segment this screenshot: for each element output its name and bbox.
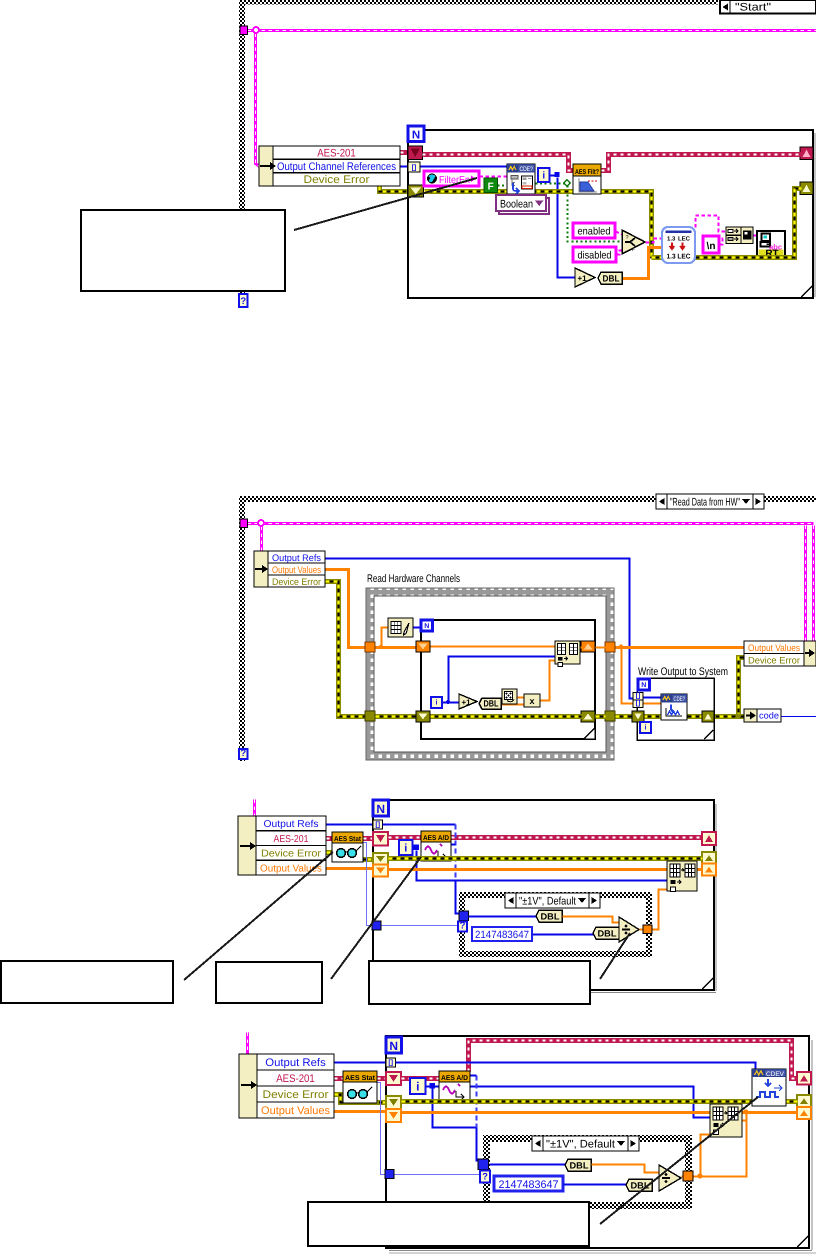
svg-text:2147483647: 2147483647 [499, 1179, 559, 1191]
svg-text:AES-201: AES-201 [317, 147, 356, 159]
svg-text:Write Output to System: Write Output to System [638, 666, 728, 678]
svg-text:disabled: disabled [578, 250, 612, 262]
svg-text:"±1V", Default: "±1V", Default [519, 895, 576, 907]
svg-text:F: F [488, 182, 494, 193]
svg-text:N: N [389, 1039, 398, 1053]
svg-text:AES-201: AES-201 [274, 834, 309, 845]
svg-text:?: ? [626, 235, 629, 241]
svg-text:Device Error: Device Error [261, 849, 322, 860]
svg-text:"±1V", Default: "±1V", Default [546, 1138, 615, 1150]
svg-text:CDE?: CDE? [674, 696, 686, 703]
svg-text:Device Error: Device Error [748, 656, 800, 667]
svg-text:i: i [404, 843, 407, 855]
svg-text:"Read Data from HW": "Read Data from HW" [670, 496, 740, 508]
svg-text:Read Hardware Channels: Read Hardware Channels [367, 573, 460, 585]
svg-text:?: ? [460, 921, 466, 932]
svg-text:CDEV: CDEV [766, 1071, 785, 1078]
svg-text:Output Values: Output Values [748, 643, 800, 654]
svg-text:Device Error: Device Error [263, 1089, 329, 1101]
svg-text:"Start": "Start" [735, 2, 771, 14]
svg-text:AES A/D: AES A/D [441, 1074, 468, 1082]
svg-text:N: N [412, 130, 420, 142]
svg-text:AES Stat: AES Stat [334, 836, 362, 843]
svg-text:DBL: DBL [598, 929, 618, 939]
svg-text:[]: [] [388, 1059, 393, 1067]
svg-text:\n: \n [707, 241, 716, 252]
svg-text:Output Refs: Output Refs [265, 1057, 326, 1069]
svg-text:+1: +1 [577, 274, 587, 283]
svg-text:enabled: enabled [578, 226, 611, 238]
svg-text:Output Refs: Output Refs [264, 819, 319, 830]
svg-text:N: N [424, 623, 429, 630]
svg-text:AES-201: AES-201 [276, 1073, 315, 1085]
svg-text:x: x [529, 696, 534, 706]
svg-text:[]: [] [636, 692, 641, 700]
svg-text:N: N [641, 682, 646, 689]
svg-text:Output Channel References: Output Channel References [277, 161, 396, 173]
svg-text:2147483647: 2147483647 [475, 929, 529, 941]
svg-text:i: i [542, 171, 545, 182]
svg-text:i: i [416, 1080, 419, 1094]
svg-text:[]: [] [412, 164, 417, 172]
svg-text:1.3 LEC: 1.3 LEC [667, 254, 691, 261]
svg-text:AES A/D: AES A/D [423, 834, 449, 842]
svg-text:i: i [436, 699, 438, 707]
svg-text:N: N [376, 802, 385, 816]
svg-text:LEC: LEC [678, 236, 691, 243]
svg-text:AES Filt?: AES Filt? [575, 168, 599, 176]
svg-text:DBL: DBL [570, 1161, 590, 1171]
svg-text:Boolean: Boolean [500, 199, 533, 211]
svg-text:?: ? [482, 1172, 488, 1183]
svg-text:Output Values: Output Values [261, 1105, 330, 1117]
svg-text:[]: [] [375, 821, 380, 829]
svg-text:F: F [632, 247, 635, 253]
svg-text:abc: abc [769, 243, 782, 252]
svg-text:i: i [645, 724, 647, 732]
svg-text:code: code [759, 711, 779, 721]
svg-text:CDE?: CDE? [520, 166, 534, 173]
svg-text:+1: +1 [461, 698, 471, 707]
svg-text:Device Error: Device Error [304, 174, 370, 186]
svg-text:DBL: DBL [484, 699, 499, 709]
svg-text:DBL: DBL [541, 912, 561, 922]
svg-text:?: ? [240, 296, 246, 307]
svg-text:1.3: 1.3 [667, 236, 676, 243]
svg-text:Device Error: Device Error [272, 577, 321, 588]
svg-text:AES Stat: AES Stat [345, 1075, 376, 1082]
svg-text:Output Refs: Output Refs [272, 553, 321, 564]
svg-text:[]: [] [636, 699, 641, 707]
svg-text:?: ? [240, 748, 246, 759]
svg-text:Output Values: Output Values [272, 565, 321, 576]
svg-text:DBL: DBL [603, 274, 620, 284]
